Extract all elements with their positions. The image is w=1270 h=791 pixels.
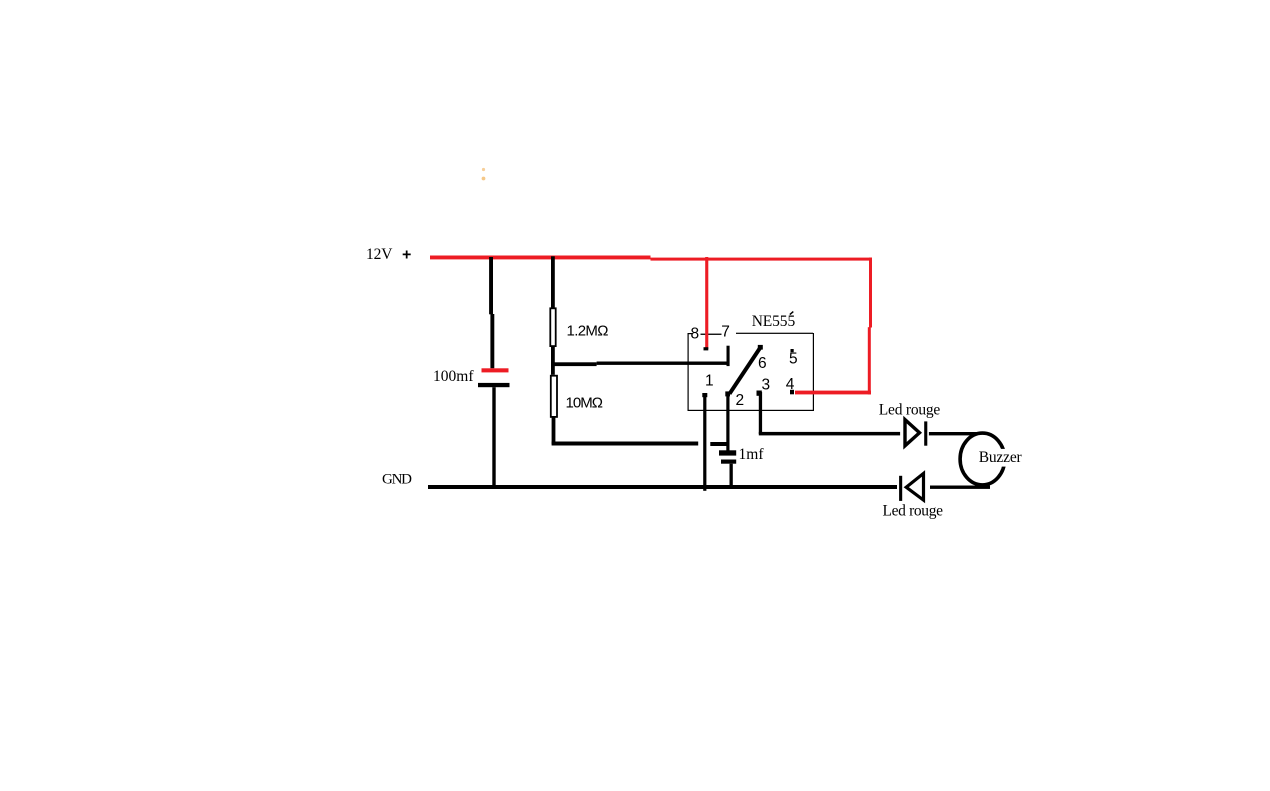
- op-amp U1 NE555 box right edge: [813, 333, 814, 411]
- wire junction to pin7 segment B: [597, 362, 728, 365]
- wire from bus down to R1: [551, 256, 555, 308]
- wire red from bus down into pin 8/7 area: [705, 257, 708, 349]
- capacitor C2 top plate: [719, 450, 736, 455]
- wire red vertical lower: [868, 327, 871, 394]
- buzzer arc gap: [1000, 449, 1010, 467]
- node dot at red wire tip: [704, 347, 709, 350]
- diode D1 cathode bar: [924, 421, 927, 445]
- wire pin 1 down to GND: [703, 395, 706, 491]
- node dot pin 2: [725, 391, 730, 396]
- svg-text:1mf: 1mf: [739, 446, 765, 463]
- node dot top of diagonal: [758, 345, 763, 350]
- diode D2 anode bar: [899, 476, 902, 501]
- diode D2 triangle: [906, 473, 923, 500]
- wire 12V red bus segment 1: [430, 256, 651, 260]
- svg-text:3: 3: [762, 376, 771, 393]
- svg-text:1: 1: [705, 372, 714, 389]
- op-amp U1 NE555 box top edge right part: [736, 333, 813, 334]
- switch diagonal stroke: [730, 347, 762, 394]
- svg-text:12V: 12V: [366, 246, 393, 263]
- resistor R2 body: [551, 376, 557, 417]
- svg-text:7: 7: [721, 324, 730, 341]
- buzzer BZ1 circle: [960, 433, 1005, 485]
- svg-text:10MΩ: 10MΩ: [566, 395, 604, 412]
- wire D1 to buzzer: [929, 432, 984, 435]
- svg-text:Buzzer: Buzzer: [979, 449, 1023, 466]
- wire below R2: [552, 418, 556, 445]
- wire GND rail: [428, 485, 897, 489]
- wire D2 to buzzer: [930, 486, 990, 489]
- svg-text:1.2MΩ: 1.2MΩ: [567, 323, 609, 340]
- op-amp U1 NE555 box top edge left tick: [688, 333, 693, 334]
- wire pin 2 down to C2: [726, 393, 729, 451]
- wire from bus down to C1 upper: [489, 257, 493, 314]
- svg-text:Led rouge: Led rouge: [879, 402, 941, 419]
- op-amp U1 NE555 box left edge: [688, 333, 689, 410]
- wire pin 3 down: [759, 392, 762, 434]
- wire C1 to GND: [492, 387, 495, 487]
- stray dot 2: [482, 177, 486, 181]
- wire junction to pin7 segment A: [551, 362, 597, 366]
- capacitor C1 top plate (red): [482, 368, 509, 372]
- capacitor C1 bottom plate: [478, 383, 510, 387]
- resistor R1 body: [550, 308, 555, 346]
- wire pin 7 stub: [727, 346, 730, 366]
- wire R1 to R2: [551, 346, 555, 374]
- diode D1 triangle: [905, 420, 920, 446]
- svg-text:NE555: NE555: [752, 313, 796, 330]
- pin 5 dot: [791, 349, 794, 352]
- node dot pin 1: [702, 393, 707, 397]
- op-amp U1 NE555 box bottom edge: [688, 410, 815, 411]
- stray dot 1: [482, 168, 485, 171]
- accent mark over NE555: [790, 312, 794, 315]
- wire C2 to GND: [730, 464, 733, 487]
- wire to pin2 capacitor: [710, 442, 728, 446]
- node dot pin 3: [757, 391, 762, 396]
- svg-text:Led rouge: Led rouge: [883, 503, 944, 520]
- wire R2 bottom to pin1 area: [552, 442, 699, 446]
- node dot pin 4: [790, 390, 794, 395]
- svg-text:6: 6: [758, 355, 767, 372]
- wire red vertical upper (bus to corner): [869, 258, 872, 328]
- wire pin8 to pin7 link: [701, 334, 722, 335]
- wire 12V red bus segment 2: [651, 258, 872, 261]
- svg-text:8: 8: [691, 326, 700, 343]
- svg-text:5: 5: [789, 351, 798, 368]
- svg-text:100mf: 100mf: [433, 368, 474, 385]
- wire pin 3 to LED D1: [759, 432, 900, 436]
- svg-text:GND: GND: [382, 472, 412, 488]
- svg-text:2: 2: [736, 392, 745, 409]
- wire from bus down to C1 lower: [490, 314, 494, 368]
- capacitor C2 bottom plate: [721, 460, 736, 464]
- svg-text:+: +: [402, 246, 411, 263]
- wire red pin 4 horizontal: [795, 391, 871, 395]
